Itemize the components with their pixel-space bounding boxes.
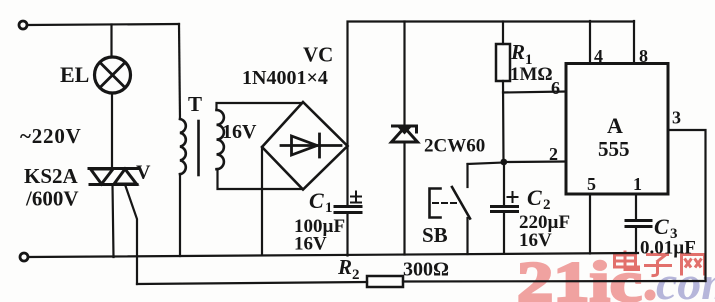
terminal bottom-left	[20, 253, 28, 261]
wire bridge minus down	[261, 147, 263, 255]
svg-text:2: 2	[549, 144, 558, 164]
bridge rectifier VC diamond	[262, 102, 348, 190]
label R2	[337, 255, 360, 283]
svg-text:3: 3	[672, 108, 681, 128]
svg-text:1N4001×4: 1N4001×4	[242, 67, 328, 89]
IC A 555 box	[566, 64, 668, 195]
svg-text:16V: 16V	[222, 121, 257, 143]
svg-text:8: 8	[639, 46, 648, 66]
svg-text:300Ω: 300Ω	[403, 259, 449, 281]
label C3	[654, 214, 678, 242]
svg-text:A: A	[607, 113, 623, 138]
wire lamp top drop	[110, 25, 112, 58]
svg-text:1MΩ: 1MΩ	[510, 64, 553, 85]
wire left vertical to transformer primary	[179, 24, 180, 119]
wire R1 top	[502, 22, 504, 45]
svg-text:2: 2	[543, 197, 551, 213]
svg-text:~220V: ~220V	[20, 124, 82, 148]
svg-text:0.01µF: 0.01µF	[640, 238, 696, 259]
watermark 21ic	[517, 251, 656, 302]
resistor R1	[496, 44, 510, 81]
watermark .com	[656, 257, 715, 302]
svg-text:2CW60: 2CW60	[424, 136, 485, 157]
svg-text:VC: VC	[303, 43, 333, 67]
capacitor C1	[335, 207, 361, 213]
wire C2 to bottom rail	[503, 212, 505, 254]
watermark 电	[615, 251, 639, 270]
transformer core	[197, 121, 200, 175]
bottom rail wire	[29, 253, 639, 257]
wire C3 to bottom rail	[635, 227, 637, 254]
svg-text:C: C	[309, 188, 324, 213]
capacitor C2	[492, 207, 518, 212]
label R1	[510, 40, 533, 68]
svg-text:T: T	[188, 92, 202, 116]
switch SB	[430, 164, 471, 254]
svg-text:4: 4	[594, 46, 603, 66]
wire R2 to pin3 drop	[403, 280, 706, 283]
wire secondary top to bridge	[217, 103, 303, 110]
pin3 wire	[668, 130, 706, 281]
terminal top-left	[19, 21, 27, 29]
wire bridge plus up / top rail	[348, 22, 635, 147]
wire bridge plus down to C1	[346, 146, 348, 206]
svg-text:2: 2	[352, 267, 360, 283]
bridge inner diode	[281, 134, 341, 157]
svg-text:6: 6	[551, 78, 560, 98]
svg-text:C: C	[654, 214, 669, 239]
triac gate wire	[125, 185, 137, 285]
triac KS2A	[89, 169, 138, 185]
pin8 wire	[633, 21, 635, 64]
pin6 wire	[503, 92, 566, 93]
label C2	[527, 185, 551, 213]
wire R1 bottom to junction	[502, 81, 505, 162]
label C1	[309, 188, 333, 216]
pin2 wire	[504, 160, 566, 163]
svg-text:1: 1	[325, 200, 333, 216]
svg-text:KS2A: KS2A	[24, 164, 79, 188]
svg-text:C: C	[527, 185, 542, 210]
C2 plus mark	[508, 192, 518, 202]
gate wire horizontal to R2	[137, 282, 367, 284]
wire junction to switch	[468, 163, 505, 165]
wire zener bottom	[403, 142, 405, 255]
watermark 子	[644, 255, 672, 276]
svg-text:V: V	[136, 162, 151, 184]
lamp EL	[95, 57, 131, 93]
wire C1 to bottom rail	[346, 213, 348, 256]
svg-text:/600V: /600V	[25, 187, 79, 211]
svg-text:16V: 16V	[294, 234, 327, 255]
wire zener top	[403, 22, 405, 127]
transformer secondary winding	[217, 110, 224, 169]
capacitor C3	[626, 221, 651, 227]
pin1 wire	[635, 194, 637, 220]
watermark 网	[682, 255, 705, 276]
C1 plus mark	[351, 192, 361, 203]
svg-text:16V: 16V	[519, 230, 552, 251]
wire triac to bottom rail	[113, 185, 114, 258]
svg-text:21ic: 21ic	[517, 251, 642, 302]
wire secondary bottom to bridge	[218, 169, 303, 189]
svg-text:SB: SB	[422, 223, 448, 247]
svg-text:R: R	[510, 40, 525, 64]
svg-text:EL: EL	[60, 62, 89, 87]
svg-text:R: R	[337, 255, 352, 279]
wire lamp to triac	[111, 93, 113, 168]
junction node	[500, 159, 507, 166]
wire junction to C2	[503, 162, 505, 206]
svg-text:5: 5	[587, 174, 596, 194]
transformer primary winding	[180, 119, 186, 174]
svg-text:555: 555	[598, 137, 630, 161]
wire top-left horizontal	[28, 24, 180, 25]
resistor R2	[367, 276, 403, 287]
pin5 wire	[589, 194, 591, 254]
svg-text:1: 1	[633, 174, 642, 194]
pin4 wire	[589, 21, 591, 64]
wire primary to bottom rail	[179, 174, 181, 256]
zener diode 2CW60	[392, 126, 418, 142]
